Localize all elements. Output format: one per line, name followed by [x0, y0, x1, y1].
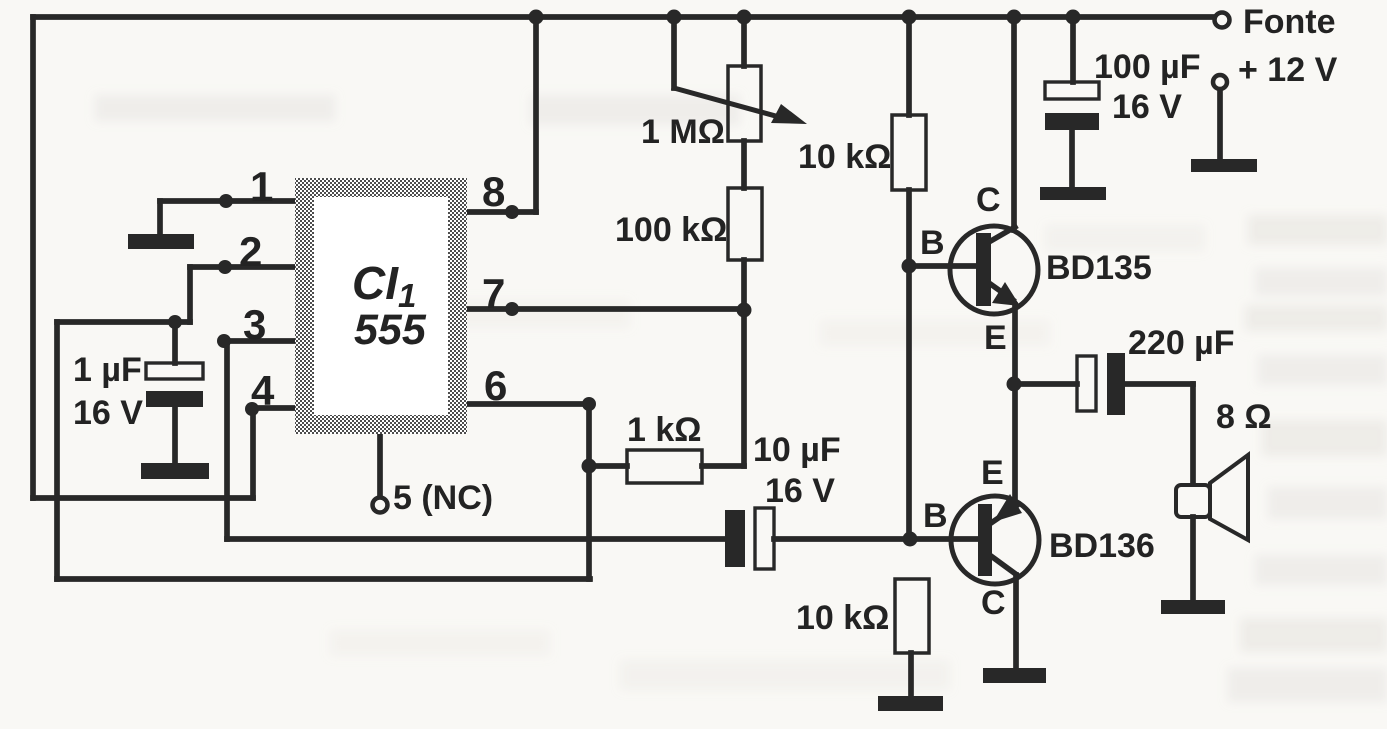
ground pin 1	[128, 234, 194, 249]
ground collector BD136	[983, 668, 1046, 683]
svg-text:16 V: 16 V	[1112, 88, 1182, 126]
wire pin 2	[190, 264, 296, 270]
ground +12V	[1191, 159, 1257, 172]
svg-text:10 µF: 10 µF	[753, 431, 841, 469]
svg-text:100 µF: 100 µF	[1094, 48, 1201, 86]
wire base column	[906, 266, 912, 539]
svg-text:3: 3	[243, 301, 266, 348]
node pin 7	[505, 302, 519, 316]
wire pin 8 vertical to rail	[533, 17, 539, 212]
potentiometer P1 1M body	[728, 66, 761, 141]
svg-text:10 kΩ: 10 kΩ	[796, 599, 889, 637]
wire bottom frame to pin 4	[33, 495, 253, 501]
ground capacitor C4	[1040, 187, 1106, 200]
wire pin 7	[467, 306, 744, 312]
speaker LS1	[1176, 455, 1248, 540]
svg-text:E: E	[984, 319, 1007, 357]
wire pin 3	[227, 338, 296, 344]
wire pin 4 vertical	[250, 408, 256, 498]
wire R3 top lead	[906, 17, 912, 115]
capacitor C1 1uF plate -	[146, 391, 203, 407]
node rail collector	[1007, 10, 1022, 25]
transistor Q2 BD136	[951, 494, 1039, 584]
node pin 3	[217, 334, 231, 348]
wire wiper vertical	[671, 17, 677, 88]
node R4 left	[582, 459, 597, 474]
node pin 1	[219, 194, 233, 208]
svg-text:+ 12 V: + 12 V	[1238, 51, 1338, 89]
svg-text:Fonte: Fonte	[1243, 3, 1336, 41]
resistor R3 10k	[892, 115, 926, 190]
wire to C5	[1014, 381, 1077, 387]
ground capacitor C1	[141, 463, 209, 479]
svg-text:B: B	[920, 224, 945, 262]
node pin 8	[505, 205, 519, 219]
wire pin 3 output horizontal	[227, 536, 725, 542]
svg-text:1 MΩ: 1 MΩ	[641, 113, 725, 151]
node rail P1	[737, 10, 752, 25]
wire bottom feedback horizontal	[57, 576, 590, 582]
terminal pin 5 NC	[373, 498, 388, 513]
node pin 7 / R2 junction	[737, 303, 752, 318]
wire pin 5 stem	[377, 434, 383, 498]
node pin 4	[245, 402, 259, 416]
svg-text:4: 4	[251, 367, 275, 414]
svg-text:C: C	[976, 181, 1001, 219]
node pin 6	[582, 397, 596, 411]
wire pin 1 ground stem	[157, 201, 163, 236]
wire P1 to R2	[741, 141, 747, 188]
node base BD135	[902, 259, 917, 274]
wire left frame vertical	[30, 17, 36, 498]
wire R3 bottom to base node	[906, 190, 912, 266]
capacitor C1 1uF plate +	[146, 363, 203, 379]
wire pin 2 vertical	[187, 267, 193, 322]
wire R4 right lead	[702, 463, 744, 469]
svg-text:2: 2	[239, 228, 262, 275]
capacitor C3 10uF plate -	[725, 510, 745, 567]
svg-text:555: 555	[354, 306, 427, 354]
terminal +12V	[1213, 75, 1227, 89]
node pin 2	[218, 260, 232, 274]
wire pin 4	[253, 405, 296, 411]
node emitter junction	[1007, 377, 1022, 392]
capacitor C3 10uF plate +	[755, 508, 774, 569]
svg-text:8 Ω: 8 Ω	[1216, 398, 1272, 436]
node rail C4	[1066, 10, 1081, 25]
wire C4 top lead	[1070, 17, 1076, 82]
svg-text:16 V: 16 V	[73, 394, 143, 432]
terminal Fonte	[1215, 13, 1230, 28]
wire collector BD135 to rail	[1011, 17, 1017, 230]
capacitor C1 1uF lead	[172, 322, 178, 363]
wire pin 6	[467, 401, 589, 407]
wire left inner vertical	[54, 322, 60, 579]
wire C3 to base BD136	[774, 536, 978, 542]
svg-text:1: 1	[250, 163, 273, 210]
wire P1 top lead	[741, 17, 747, 66]
node 10uF output	[903, 532, 918, 547]
svg-text:B: B	[923, 497, 948, 535]
capacitor C1 lower lead	[172, 407, 178, 463]
wiper arrow potentiometer P1	[674, 88, 790, 120]
wire base BD135	[909, 263, 978, 269]
op-amp U1 555 IC body	[295, 178, 467, 434]
wire pin 2 horizontal to left	[57, 319, 190, 325]
svg-text:6: 6	[484, 362, 507, 409]
resistor R5 10k	[895, 579, 929, 653]
wire collector BD136 down	[1013, 575, 1019, 668]
ground R5	[878, 696, 943, 711]
svg-text:220 µF: 220 µF	[1128, 324, 1235, 362]
wire +12V ground stem	[1217, 90, 1223, 159]
wire top supply rail	[33, 14, 1214, 20]
capacitor C4 100uF plate -	[1045, 113, 1099, 130]
node rail R3	[902, 10, 917, 25]
resistor R4 1k	[627, 450, 702, 483]
svg-text:100 kΩ: 100 kΩ	[615, 211, 727, 249]
wire pin 6 vertical	[586, 404, 592, 579]
node rail pin 8	[529, 10, 544, 25]
svg-text:1 µF: 1 µF	[73, 351, 142, 389]
svg-text:C: C	[981, 584, 1006, 622]
wire pin 8	[467, 209, 536, 215]
resistor R2 100k	[728, 188, 762, 260]
capacitor C5 220uF plate -	[1107, 353, 1125, 415]
wire pin 3 vertical	[224, 341, 230, 539]
svg-text:8: 8	[482, 168, 505, 215]
capacitor C5 220uF plate +	[1077, 356, 1096, 411]
wire emitter BD136 up	[1012, 384, 1018, 505]
wire emitter BD135 down	[1012, 305, 1018, 384]
ground speaker	[1161, 600, 1225, 614]
wire R4 left lead	[589, 463, 627, 469]
wire C4 bottom lead	[1069, 130, 1075, 187]
svg-text:1 kΩ: 1 kΩ	[627, 411, 702, 449]
wire speaker top lead	[1190, 384, 1196, 486]
wire speaker bottom lead	[1190, 517, 1196, 600]
svg-text:10 kΩ: 10 kΩ	[798, 138, 891, 176]
capacitor C4 100uF plate +	[1045, 82, 1099, 99]
wire R5 bottom lead	[908, 653, 914, 696]
svg-text:BD136: BD136	[1049, 527, 1155, 565]
transistor Q1 BD135	[950, 226, 1038, 314]
svg-text:5 (NC): 5 (NC)	[393, 479, 493, 517]
faint scan ghost artifacts	[95, 95, 1387, 702]
wire R4 to pin7 vertical	[741, 311, 747, 466]
svg-text:BD135: BD135	[1046, 249, 1152, 287]
wire C5 to speaker	[1125, 381, 1193, 387]
node capacitor C1 top	[168, 315, 182, 329]
svg-text:16 V: 16 V	[765, 472, 835, 510]
svg-text:E: E	[981, 454, 1004, 492]
wire R2 bottom lead	[741, 260, 747, 311]
node rail wiper	[667, 10, 682, 25]
svg-text:7: 7	[482, 270, 505, 317]
wire pin 1	[160, 198, 296, 204]
